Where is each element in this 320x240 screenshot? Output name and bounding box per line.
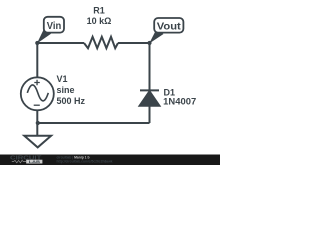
- diode D1: [140, 89, 159, 91]
- wire left vertical lower: [36, 110, 38, 123]
- watermark logo LAB: [26, 160, 42, 164]
- wire bottom rail: [37, 122, 149, 124]
- resistor R1: [84, 37, 118, 48]
- wire top-right horizontal: [118, 42, 150, 44]
- node Vout junction dot: [147, 41, 151, 45]
- svg-text:Vout: Vout: [157, 20, 182, 32]
- wire right vertical lower: [149, 106, 151, 123]
- svg-text:500 Hz: 500 Hz: [57, 96, 86, 106]
- svg-text:Vin: Vin: [47, 20, 62, 32]
- watermark bar: [0, 155, 220, 166]
- svg-text:10 kΩ: 10 kΩ: [87, 16, 112, 26]
- node label Vin: [37, 17, 64, 44]
- svg-text:1N4007: 1N4007: [163, 97, 196, 107]
- svg-text:V1: V1: [57, 74, 68, 84]
- wire right vertical upper: [149, 43, 151, 90]
- node label Vout: [149, 18, 183, 44]
- watermark logo squiggle: [12, 160, 26, 162]
- svg-text:http://circuitlab.com/c/5c26c2: http://circuitlab.com/c/5c26c2h8awk: [57, 159, 113, 163]
- wire left vertical upper: [36, 43, 38, 77]
- node ground junction dot: [36, 121, 40, 125]
- svg-text:sine: sine: [57, 85, 75, 95]
- ground: [36, 123, 38, 136]
- svg-text:LAB: LAB: [29, 160, 41, 164]
- svg-text:R1: R1: [93, 6, 105, 16]
- node Vin junction dot: [35, 41, 39, 45]
- wire top-left horizontal: [37, 42, 84, 44]
- voltage source V1: [21, 77, 54, 110]
